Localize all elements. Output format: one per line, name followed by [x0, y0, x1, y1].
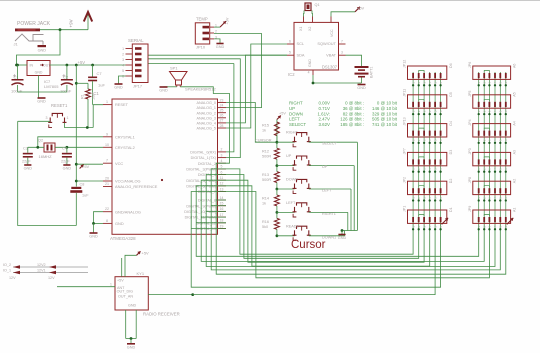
svg-text:126 @ 8bit :: 126 @ 8bit :: [340, 117, 364, 122]
JP10 pin 1: [210, 26, 214, 28]
wire digital2 staircase bus: [216, 163, 506, 274]
svg-text:RESET: RESET: [115, 102, 129, 107]
IC2 VCC pin to +5V: [330, 17, 332, 23]
svg-text:14: 14: [220, 196, 224, 200]
node C1 top: [16, 64, 19, 67]
svg-text:DIGITAL_2: DIGITAL_2: [198, 162, 216, 166]
JP17 pin 4: [126, 64, 133, 66]
wire button 2 to gnd rail: [309, 165, 354, 167]
IC1 pin 17 DIGITAL_11(PWM): [218, 216, 227, 218]
wire temp pin1 to +5V: [214, 26, 220, 28]
IC2 pin 5 SDA: [287, 54, 294, 56]
svg-text:GND: GND: [37, 100, 46, 104]
svg-text:18: 18: [220, 219, 224, 223]
wire jog row 4: [419, 157, 424, 159]
wire digital7 staircase bus: [191, 192, 440, 288]
ground of serial header: [115, 83, 123, 85]
wire jog row 1: [419, 71, 424, 73]
svg-text:12V: 12V: [48, 276, 55, 280]
svg-text:7: 7: [341, 40, 343, 44]
svg-text:DS1307: DS1307: [322, 64, 338, 69]
svg-text:UP: UP: [286, 154, 292, 158]
svg-text:OUT_DIG: OUT_DIG: [117, 290, 134, 294]
JP17 pin 3: [126, 59, 133, 61]
svg-text:0.00V: 0.00V: [319, 101, 331, 106]
svg-text:X1: X1: [299, 27, 303, 31]
svg-text:3.62V: 3.62V: [319, 122, 331, 127]
wire VBAT to battery: [346, 55, 362, 66]
svg-text:D6: D6: [449, 63, 453, 68]
svg-text:22pF: 22pF: [22, 160, 31, 164]
wire jog row 6: [484, 215, 489, 217]
svg-text:25: 25: [220, 109, 224, 113]
svg-text:LM7805: LM7805: [44, 84, 59, 89]
svg-text:DIGITAL_8: DIGITAL_8: [198, 199, 216, 203]
svg-text:GND: GND: [24, 167, 33, 171]
svg-text:GND: GND: [114, 86, 123, 90]
resistor R14 1k: [274, 195, 279, 206]
svg-text:D4: D4: [449, 121, 453, 126]
wire SCL to analog5: [226, 44, 287, 128]
wire digital11 jog: [201, 216, 226, 218]
wire +5V feed down to VCC pins: [75, 65, 77, 187]
wires left column vertical bus: [412, 72, 414, 222]
IC1 pin 19 DIGITAL_13: [218, 228, 227, 230]
svg-text:KY1: KY1: [137, 271, 145, 276]
+9V supply arrow: [87, 14, 89, 30]
svg-text:GND: GND: [338, 236, 347, 240]
node jack junction: [59, 28, 62, 31]
node reset net: [86, 126, 89, 129]
svg-text:C7: C7: [97, 71, 103, 76]
ground of radio: [127, 343, 135, 345]
svg-text:19: 19: [220, 224, 224, 228]
wire GND/ANALOG pin: [94, 212, 104, 224]
pushbutton UP: [277, 165, 295, 167]
svg-text:ANALOG_0: ANALOG_0: [197, 101, 216, 105]
svg-text:JP6: JP6: [468, 62, 472, 68]
IC1 pin 11 DIGITAL_5(PWM): [218, 179, 227, 181]
pushbutton RIGHT: [277, 141, 295, 143]
svg-text:CRYSTAL1: CRYSTAL1: [115, 134, 135, 139]
svg-text:1uF: 1uF: [82, 194, 89, 198]
svg-text:UP: UP: [322, 165, 328, 169]
IC2 crystal pins: [304, 17, 313, 23]
svg-text:DIGITAL_0(RX): DIGITAL_0(RX): [190, 151, 216, 155]
ground of buttons: [338, 234, 345, 236]
svg-text:A1: A1: [513, 208, 517, 212]
svg-text:1uF: 1uF: [98, 83, 105, 88]
IC1 pin 18 DIGITAL_12: [218, 222, 227, 224]
svg-text:27: 27: [220, 119, 224, 123]
svg-text:D3: D3: [449, 150, 453, 155]
svg-text:POWER JACK: POWER JACK: [17, 21, 51, 27]
connector JP1 (left column row 6): [408, 210, 447, 223]
svg-text:3: 3: [221, 153, 223, 157]
svg-text:24: 24: [220, 103, 224, 107]
svg-text:1k: 1k: [262, 129, 266, 133]
svg-text:5: 5: [221, 165, 223, 169]
wire jog row 5: [484, 186, 489, 188]
svg-text:D1: D1: [449, 207, 453, 212]
IC2 pin 3 VBAT: [339, 54, 346, 56]
svg-text:LEFT: LEFT: [289, 117, 300, 122]
IC1 pin 9 CRYSTAL1: [103, 136, 112, 138]
pushbutton LEFT: [277, 211, 295, 213]
svg-text:11: 11: [220, 176, 224, 180]
JP17 pin 5: [126, 70, 133, 72]
wire temp pin2 data to analog1: [214, 34, 262, 108]
microcontroller IC1 ATMEGA328: [112, 99, 218, 234]
svg-text:SERIAL: SERIAL: [128, 38, 144, 43]
wire TX to digital1: [149, 59, 241, 158]
node ladder junction 5: [276, 234, 279, 237]
svg-text:GND: GND: [63, 167, 72, 171]
IC1 pin 27 ANALOG_4: [218, 122, 227, 124]
svg-text:JP12: JP12: [403, 60, 407, 68]
svg-text:DIGITAL_7: DIGITAL_7: [198, 190, 216, 194]
svg-text:10: 10: [105, 143, 109, 147]
svg-text:+5V: +5V: [117, 279, 124, 283]
wire digital10 jog: [206, 210, 226, 212]
wire crystal2 to IC1: [55, 146, 103, 148]
IC1 pin 13 DIGITAL_7: [218, 191, 227, 193]
svg-text:RADIO RECEIVER: RADIO RECEIVER: [143, 312, 180, 317]
svg-text:21: 21: [105, 182, 109, 186]
node +5V rail R1: [75, 64, 78, 67]
svg-text:36 @ 8bit :: 36 @ 8bit :: [343, 106, 364, 111]
wire digital13 jog: [191, 228, 226, 230]
pushbutton DOWN: [277, 188, 295, 190]
svg-text:+9V: +9V: [69, 19, 74, 27]
svg-text:RIGHT1: RIGHT1: [322, 212, 336, 216]
IC1 pin 23 ANALOG_0: [218, 102, 227, 104]
JP17 pin 1: [126, 48, 133, 50]
svg-text:5k0: 5k0: [262, 225, 268, 229]
svg-text:1: 1: [122, 47, 124, 51]
resistor R15 1k: [274, 122, 279, 136]
svg-text:741 @ 10 bit: 741 @ 10 bit: [372, 122, 398, 127]
svg-text:GND: GND: [357, 86, 366, 90]
IC1 pin 15 DIGITAL_9(PWM): [218, 205, 227, 207]
svg-text:R14: R14: [262, 197, 269, 201]
resistor R16 5k0: [274, 218, 279, 229]
svg-text:VCC: VCC: [115, 161, 123, 166]
svg-text:C3: C3: [23, 147, 28, 151]
svg-text:IO_1: IO_1: [3, 268, 11, 272]
svg-text:VCC/ANALOG: VCC/ANALOG: [115, 179, 141, 184]
svg-text:ANALOG_2: ANALOG_2: [197, 111, 216, 115]
svg-text:DOWN: DOWN: [289, 111, 303, 116]
connector JP4 (right column row 3): [473, 124, 511, 137]
svg-text:JP2: JP2: [403, 177, 407, 183]
svg-text:GND/ANALOG: GND/ANALOG: [115, 209, 141, 214]
svg-text:JP3: JP3: [468, 148, 472, 154]
wire speaker to digital 2: [180, 87, 229, 163]
IC1 pin 1 RESET: [103, 104, 112, 106]
wire radio antenna: [57, 286, 115, 288]
svg-text:JP10: JP10: [196, 44, 206, 49]
svg-text:500R: 500R: [262, 155, 271, 159]
svg-text:VCC: VCC: [330, 29, 334, 37]
svg-text:A5: A5: [513, 92, 517, 96]
svg-text:15: 15: [220, 202, 224, 206]
IC1 pin 20 VCC/ANALOG: [103, 180, 112, 182]
svg-text:329 @ 10 bit: 329 @ 10 bit: [372, 111, 398, 116]
svg-text:4: 4: [122, 63, 124, 67]
svg-text:IO_2: IO_2: [3, 263, 11, 267]
wire digital3 staircase bus: [211, 169, 500, 270]
svg-text:SCL: SCL: [297, 41, 305, 46]
svg-text:16MHZ: 16MHZ: [39, 154, 53, 159]
svg-text:8: 8: [106, 219, 108, 223]
svg-text:+5V: +5V: [226, 17, 230, 24]
wire ground bus under regulator: [18, 91, 67, 93]
svg-text:JP9: JP9: [468, 206, 472, 212]
svg-text:0 @ 8bit :: 0 @ 8bit :: [345, 101, 364, 106]
wire digital4 staircase bus: [206, 175, 495, 267]
ground of regulator: [38, 97, 46, 99]
IC1 pin 25 ANALOG_2: [218, 112, 227, 114]
connector JP3 (right column row 4): [473, 152, 511, 165]
wire button 3 to gnd rail: [309, 188, 351, 190]
IC1 pin 10 CRYSTAL2: [103, 146, 112, 148]
svg-text:VBAT: VBAT: [326, 52, 336, 57]
svg-text:9: 9: [106, 132, 108, 136]
crystal Q2 16MHz: [44, 143, 55, 152]
svg-text:22pF: 22pF: [61, 160, 70, 164]
wire radio out to bus: [148, 294, 192, 296]
svg-text:12V2: 12V2: [37, 263, 46, 267]
ground of C3: [24, 164, 31, 166]
wire serial RX line: [149, 63, 234, 65]
wires right column vertical bus: [478, 72, 480, 222]
wire digital9 jog: [211, 205, 226, 207]
svg-text:146 @ 10 bit: 146 @ 10 bit: [372, 106, 398, 111]
svg-text:A6: A6: [513, 64, 517, 68]
net IO_1 wire: [13, 272, 88, 274]
svg-text:A2: A2: [513, 179, 517, 183]
svg-text:JP5: JP5: [468, 91, 472, 97]
wire GND pin: [94, 222, 104, 224]
node ladder junction 3: [276, 188, 279, 191]
connector JP13 (left column row 3): [408, 124, 447, 137]
svg-text:OUT: OUT: [43, 64, 51, 68]
net IO_2 wire: [13, 266, 88, 268]
wire regulator input: [17, 64, 28, 66]
svg-text:GND: GND: [89, 235, 98, 239]
svg-text:26: 26: [220, 114, 224, 118]
IC1 pin 8 GND: [103, 222, 112, 224]
svg-text:GND: GND: [38, 49, 47, 53]
svg-text:DIGITAL_4: DIGITAL_4: [198, 173, 216, 177]
IC2 pin 6 SCL: [287, 43, 294, 45]
svg-text:5: 5: [289, 51, 291, 55]
svg-text:ANALOG_4: ANALOG_4: [197, 122, 216, 126]
svg-text:RIGHT: RIGHT: [286, 131, 298, 135]
svg-text:R12: R12: [262, 150, 269, 154]
svg-text:20: 20: [105, 177, 109, 181]
wire serial pin6 to ground: [119, 76, 126, 84]
svg-text:C4: C4: [62, 147, 67, 151]
wire jog row 4: [484, 157, 489, 159]
svg-text:GND: GND: [35, 71, 43, 75]
IC1 pin 14 DIGITAL_8: [218, 199, 227, 201]
ground of power jack: [38, 45, 47, 47]
wire button 4 to gnd rail: [309, 211, 348, 213]
svg-text:TEMP: TEMP: [196, 17, 208, 22]
svg-text:12V: 12V: [9, 276, 16, 280]
IC1 pin 21 ANALOG_REFERENCE: [103, 186, 112, 188]
connector JP2 (left column row 5): [408, 181, 447, 194]
svg-text:12V1: 12V1: [37, 268, 46, 272]
node regulator input: [15, 64, 18, 67]
battery BATT1: [355, 66, 369, 68]
wire VCC pin connection: [76, 163, 103, 165]
svg-text:4: 4: [221, 159, 223, 163]
JP17 pin 2: [126, 53, 133, 55]
connector JP7 (left column row 4): [408, 152, 447, 165]
wire temp pin3 to ground: [214, 39, 220, 43]
svg-text:23: 23: [220, 98, 224, 102]
wire jog row 3: [419, 128, 424, 130]
svg-text:SPEAKER8R512: SPEAKER8R512: [185, 87, 216, 92]
svg-text:IC1: IC1: [92, 91, 99, 96]
wire digital7 bus: [226, 192, 489, 278]
IC1 pin 24 ANALOG_1: [218, 107, 227, 109]
svg-text:DOWN: DOWN: [286, 178, 298, 182]
svg-text:1: 1: [110, 283, 112, 287]
IC1 pin 22 GND/ANALOG: [103, 211, 112, 213]
svg-text:R15: R15: [262, 124, 269, 128]
IC1 pin 28 ANALOG_5: [218, 127, 227, 129]
svg-text:ATMEGA328: ATMEGA328: [110, 236, 136, 241]
wire digital3 bus: [226, 169, 413, 254]
wire jog row 1: [484, 71, 489, 73]
wire analog0 to cursor net: [226, 103, 277, 143]
wire jog row 5: [419, 186, 424, 188]
svg-text:3: 3: [46, 116, 48, 120]
svg-text:D2: D2: [449, 179, 453, 184]
wire digital5 staircase bus: [201, 180, 484, 261]
wire left loop: [18, 121, 77, 225]
svg-text:X2: X2: [308, 27, 312, 31]
connector JP5 (right column row 2): [473, 95, 511, 108]
voltage regulator IC7 7805: [27, 61, 50, 76]
svg-text:2: 2: [221, 148, 223, 152]
svg-text:GND: GND: [159, 89, 168, 93]
IC1 pin 12 DIGITAL_6(PWM): [218, 185, 227, 187]
svg-text:CRYSTAL2: CRYSTAL2: [115, 145, 135, 150]
svg-text:3: 3: [341, 51, 343, 55]
IC2 pin 7 SQW/OUT: [339, 43, 346, 45]
+5V arrow near VCC: [80, 165, 84, 169]
svg-text:0.71V: 0.71V: [319, 106, 331, 111]
svg-text:100uF: 100uF: [11, 89, 23, 94]
node ladder junction 1: [276, 141, 279, 144]
svg-text:JP4: JP4: [468, 119, 472, 125]
svg-text:28: 28: [220, 124, 224, 128]
svg-text:505 @ 10 bit: 505 @ 10 bit: [372, 117, 398, 122]
node radio out: [191, 293, 194, 296]
wire RX to digital0: [226, 64, 234, 152]
wire radio out bus to connector: [193, 222, 435, 295]
wire reset button to IC1 reset: [65, 123, 94, 128]
svg-text:GND: GND: [115, 221, 124, 226]
svg-text:7: 7: [106, 159, 108, 163]
svg-text:+5V: +5V: [78, 60, 86, 65]
wire button 5 to gnd rail: [309, 235, 345, 237]
svg-text:0 @ 10 bit: 0 @ 10 bit: [377, 101, 398, 106]
svg-text:1k: 1k: [262, 202, 266, 206]
ground of temp header: [216, 43, 223, 45]
svg-text:LEFT: LEFT: [322, 189, 332, 193]
svg-text:GND: GND: [216, 45, 225, 49]
svg-text:ANALOG_3: ANALOG_3: [197, 116, 216, 120]
svg-text:17: 17: [220, 213, 224, 217]
svg-text:Cursor: Cursor: [291, 239, 326, 251]
svg-text:DIGITAL_1(TX): DIGITAL_1(TX): [191, 156, 216, 160]
svg-text:JP11: JP11: [403, 89, 407, 97]
wire AVCC pin connection: [76, 180, 103, 182]
svg-text:ANALOG_REFERENCE: ANALOG_REFERENCE: [115, 184, 158, 189]
svg-text:BATT1: BATT1: [370, 66, 374, 78]
resistor R13 500R: [274, 172, 279, 183]
crystal Q1 32kHz: [305, 3, 311, 11]
wire jog row 3: [484, 128, 489, 130]
svg-text:JP1: JP1: [403, 206, 407, 212]
ground of speaker: [160, 86, 168, 88]
IC1 pin 4 DIGITAL_2: [218, 162, 227, 164]
wire digital5 bus: [226, 180, 424, 262]
svg-text:R1: R1: [81, 94, 85, 99]
node ladder junction 2: [276, 164, 279, 167]
IC1 pin 2 DIGITAL_0(RX): [218, 151, 227, 153]
svg-text:RIGHT: RIGHT: [289, 101, 303, 106]
svg-text:+5V: +5V: [82, 164, 90, 169]
radio receiver KY1: [115, 277, 148, 310]
svg-text:2: 2: [215, 30, 217, 34]
svg-text:4: 4: [308, 71, 310, 75]
svg-text:500R: 500R: [262, 178, 271, 182]
IC1 pin 5 DIGITAL_3(PWM): [218, 168, 227, 170]
wire digital8 jog: [216, 199, 226, 201]
frame top edge: [0, 0, 540, 2]
IC1 pin 7 VCC: [103, 162, 112, 164]
svg-text:1: 1: [67, 116, 69, 120]
svg-text:JP8: JP8: [468, 177, 472, 183]
resistor R1 10k: [76, 82, 88, 84]
svg-text:A4: A4: [513, 121, 517, 125]
wire crystal1 to IC1: [38, 137, 103, 148]
ground of RTC battery: [358, 84, 366, 86]
svg-text:6: 6: [289, 40, 291, 44]
IC1 pin 3 DIGITAL_1(TX): [218, 157, 227, 159]
svg-text:SP1: SP1: [170, 66, 178, 71]
ground of C4: [63, 164, 70, 166]
svg-text:2: 2: [122, 52, 124, 56]
wire button 1 to gnd rail: [309, 141, 358, 143]
IC1 pin 6 DIGITAL_4: [218, 174, 227, 176]
svg-text:82 @ 8bit :: 82 @ 8bit :: [343, 111, 364, 116]
svg-text:22: 22: [105, 207, 109, 211]
svg-text:16: 16: [220, 207, 224, 211]
wire jog row 2: [419, 99, 424, 101]
svg-text:12: 12: [220, 182, 224, 186]
connector JP6 (right column row 1): [473, 66, 511, 79]
wire radio ground: [125, 310, 127, 339]
svg-text:Q1: Q1: [315, 3, 320, 7]
